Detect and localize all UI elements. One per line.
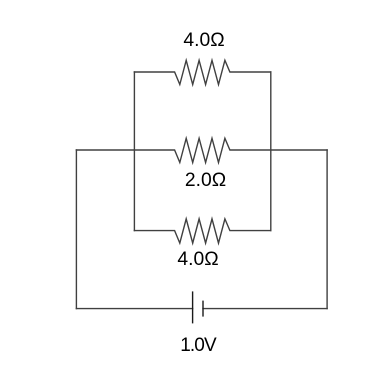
svg-text:4.0Ω: 4.0Ω <box>183 30 224 51</box>
svg-text:4.0Ω: 4.0Ω <box>177 249 218 270</box>
svg-text:2.0Ω: 2.0Ω <box>185 170 226 191</box>
svg-text:1.0V: 1.0V <box>180 335 217 356</box>
